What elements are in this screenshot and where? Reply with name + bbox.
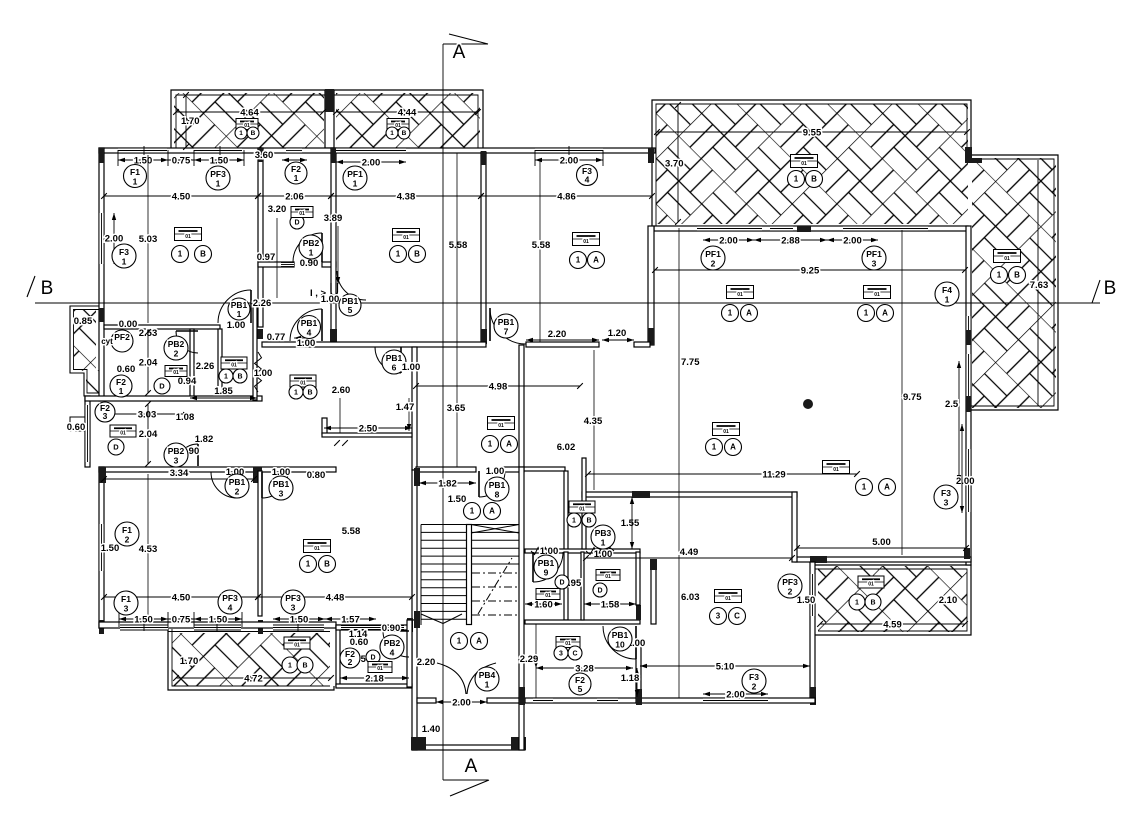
svg-text:1: 1 [239,130,243,137]
svg-text:PB2: PB2 [384,638,401,648]
svg-text:1.18: 1.18 [621,673,640,684]
balcony bottom-right outline [815,565,971,635]
svg-text:1.70: 1.70 [180,656,199,667]
salon bottom-right wall [795,557,971,562]
svg-text:4.44: 4.44 [398,108,417,119]
tag salon big [713,423,740,436]
salon top windows [697,226,762,231]
salon right wall windows [966,316,971,344]
tag kitchen [715,590,742,603]
svg-text:B: B [324,560,330,569]
dim 9.25 [655,269,965,271]
stairs dash-dot hidden treads [472,572,517,574]
svg-text:3: 3 [944,498,949,508]
svg-text:5.03: 5.03 [139,234,158,245]
tag xnod [823,461,850,474]
svg-text:2.06: 2.06 [285,192,304,203]
svg-text:01: 01 [579,506,585,512]
svg-text:F1: F1 [122,525,132,535]
svg-text:01: 01 [185,234,191,240]
tag small room1 [110,425,136,437]
svg-text:3: 3 [291,603,296,613]
svg-text:PB1: PB1 [538,558,555,568]
balcony top-right inner line [1037,160,1039,406]
balcony bottom-left outline [168,629,334,690]
svg-text:C: C [572,650,577,657]
svg-text:4: 4 [228,603,233,613]
door PB4-1 double leaf left [437,663,466,694]
door PB1-10 [603,626,636,659]
dim 2.50 [324,427,412,429]
circle F2-2 [340,648,360,668]
svg-text:5: 5 [348,305,353,315]
svg-text:D: D [113,443,119,452]
svg-text:1: 1 [390,130,394,137]
svg-text:0.90: 0.90 [300,258,319,269]
svg-text:2.50: 2.50 [359,424,378,435]
svg-text:3: 3 [279,489,284,499]
dim 2.5 right [958,361,960,482]
svg-text:4.48: 4.48 [326,593,345,604]
tag recroom [304,540,331,553]
tag balcony bl [284,637,310,649]
door PB2-1 [293,233,322,262]
svg-text:2: 2 [174,349,179,359]
svg-text:5.58: 5.58 [449,240,468,251]
tag corridor small [291,207,313,218]
svg-text:1: 1 [237,309,242,319]
tag sitting [573,233,600,246]
svg-text:B: B [811,175,817,184]
svg-text:01: 01 [231,362,237,368]
svg-text:2.60: 2.60 [332,385,351,396]
balcony bottom-right hatch [818,566,967,632]
wall x=332 middle [331,148,336,344]
wall between bedroom1 and corridor x=258 [258,148,263,327]
svg-text:B: B [237,373,242,380]
svg-text:F3: F3 [941,488,951,498]
circle F2-1 [110,375,132,397]
svg-text:F1: F1 [121,594,131,604]
svg-text:A: A [593,256,599,265]
door PB2-4 [383,631,409,657]
svg-text:1: 1 [997,271,1002,280]
kitchen west wall lower [636,640,641,703]
circle D-1 [154,378,170,394]
svg-text:PB1: PB1 [489,480,506,490]
balcony top-right outline [652,100,1058,410]
circle PF3-3 [281,590,305,614]
stairs side blocks [414,468,420,486]
svg-text:B: B [200,250,206,259]
svg-text:2.29: 2.29 [520,654,539,665]
svg-text:A: A [465,756,478,777]
svg-text:2: 2 [235,487,240,497]
door PB1-4 [290,309,322,341]
tag balcony br [858,576,884,588]
door PB1-1 [218,290,251,323]
salon top wall with windows [654,226,968,231]
tag hall 3C [556,637,580,648]
dim 7.75 [678,228,680,698]
svg-text:2.00: 2.00 [843,236,862,247]
svg-text:1.47: 1.47 [396,402,415,413]
svg-text:F4: F4 [942,285,952,295]
svg-text:A: A [882,309,888,318]
svg-text:1: 1 [216,179,221,189]
svg-text:01: 01 [725,596,731,602]
svg-text:A: A [453,42,466,63]
recroom east wall x=412 [412,470,417,620]
svg-text:01: 01 [868,581,874,587]
svg-text:PB1: PB1 [612,630,629,640]
wc right wall x=636 [636,552,640,605]
dim row top windows [118,159,168,161]
svg-text:9.55: 9.55 [803,128,822,139]
dim 5.10 [640,665,810,667]
1.55 dim [631,497,633,549]
dim 4.98 [416,385,580,387]
tag entrance [488,417,515,430]
circle F2-5 [569,673,591,695]
dims right of stairs [535,624,537,698]
tag stairs 1A [464,503,481,520]
svg-text:1: 1 [728,309,733,318]
dim 1.70 balcony1 [185,95,187,147]
svg-text:5.58: 5.58 [532,240,551,251]
svg-text:1: 1 [178,250,183,259]
kitchen east wall [810,562,815,702]
wall y=467 bedroom2 top [99,467,336,472]
circle F4-1 [935,282,959,306]
svg-text:1: 1 [294,173,299,183]
svg-text:1: 1 [306,560,311,569]
hall south wall y=342 [262,342,486,347]
balcony right strip hatch [972,158,1056,408]
svg-text:2.00: 2.00 [452,698,471,709]
salon southwest step wall [792,492,797,562]
svg-text:1: 1 [224,373,228,380]
svg-text:1: 1 [470,507,475,516]
svg-text:01: 01 [801,161,807,167]
svg-text:A: A [476,637,482,646]
circle F2-top [285,162,307,184]
svg-text:7.75: 7.75 [681,357,700,368]
svg-text:3: 3 [174,456,179,466]
section line A vertical [442,44,444,780]
circle D-2 [108,439,124,455]
door PB2-3 [176,444,198,466]
svg-text:01: 01 [498,423,504,429]
salon2 west wall step [582,458,586,549]
svg-text:01: 01 [299,211,305,217]
svg-text:2.20: 2.20 [417,657,436,668]
svg-text:0.80: 0.80 [307,470,326,481]
door PB1-8 [479,471,505,497]
wall x=481 middle [481,152,486,344]
svg-text:1.20: 1.20 [608,328,627,339]
svg-text:1.50: 1.50 [134,615,153,626]
circle PB2-1 [299,235,323,259]
svg-text:2: 2 [348,657,353,667]
svg-text:2.18: 2.18 [365,674,384,685]
svg-text:1.50: 1.50 [290,615,309,626]
svg-text:01: 01 [294,642,300,648]
svg-text:0.77: 0.77 [267,332,286,343]
kitchen south window 2.00 [703,698,768,703]
svg-text:D: D [159,382,165,391]
door PB4-1 double leaf right [467,663,496,694]
svg-text:9.25: 9.25 [801,266,820,277]
staircase treads full width [421,524,519,526]
dim 4.44 balcony2 [336,111,478,113]
svg-text:01: 01 [583,239,589,245]
dim ext line x=540 [539,159,541,342]
svg-text:3.89: 3.89 [324,213,343,224]
svg-text:PB2: PB2 [168,446,185,456]
svg-text:1: 1 [485,680,490,690]
svg-text:4.64: 4.64 [240,108,259,119]
circle F3-3 [934,485,958,509]
wc wall y=620 [525,620,640,624]
svg-text:1.40: 1.40 [422,724,441,735]
svg-text:2.00: 2.00 [362,158,381,169]
svg-text:5.00: 5.00 [872,537,891,548]
svg-text:5.10: 5.10 [716,662,735,673]
svg-text:2.26: 2.26 [253,298,272,309]
tag salon2 [864,286,891,299]
svg-text:01: 01 [300,380,306,386]
svg-text:1.00: 1.00 [227,320,246,331]
circle PB1-7 [494,314,518,338]
left rooms wall x=190 [190,329,194,400]
svg-text:1: 1 [133,176,138,186]
svg-text:B: B [1104,278,1117,299]
svg-text:PF2: PF2 [114,332,130,342]
svg-text:PB1: PB1 [386,353,403,363]
svg-text:1.50: 1.50 [209,615,228,626]
stairs bottom V mark [421,614,443,624]
svg-text:1.50: 1.50 [448,494,467,505]
svg-text:0.60: 0.60 [117,364,136,375]
svg-text:1.00: 1.00 [254,368,273,379]
left wall window top 2.00 [99,213,104,264]
stairs up-arrow cross top [471,525,519,534]
section B left mark [27,276,35,297]
door PB2-2 [176,331,198,353]
bottom wall left apartment [99,622,336,628]
tag salon1 [727,286,754,299]
svg-text:2.5: 2.5 [945,399,959,410]
svg-text:1: 1 [712,443,717,452]
circle F2-3 [95,402,115,422]
wc inner wall x=581 [581,552,584,620]
svg-text:2.00: 2.00 [105,234,124,245]
dim 2.00 kitchen win [703,693,768,695]
svg-text:1: 1 [576,256,581,265]
tag bedroom1 [175,228,202,241]
left rooms wall y=325 [104,325,220,329]
dim 4.49 [586,557,792,559]
svg-text:A: A [746,309,752,318]
stairs break line diag [478,558,512,614]
svg-text:1.00: 1.00 [486,466,505,477]
svg-text:01: 01 [605,574,611,580]
svg-text:PB1: PB1 [273,479,290,489]
section A bottom mark [443,779,488,781]
circle PF3-2 [778,574,802,598]
left wall window room2 [99,524,104,571]
svg-text:4.98: 4.98 [489,382,508,393]
circle D-5 [366,650,380,664]
svg-text:PB2: PB2 [303,238,320,248]
wall x=258 bedroom2/salon2 [258,471,262,616]
stairs left rail line [420,525,422,626]
svg-text:1.58: 1.58 [601,600,620,611]
tag wc lobby [569,501,595,513]
svg-text:PB1: PB1 [498,317,515,327]
svg-text:1: 1 [945,295,950,305]
top wall window right 2.00 [535,148,603,153]
svg-text:9: 9 [544,568,549,578]
svg-text:D: D [559,579,564,586]
svg-text:1: 1 [119,386,124,396]
circle F1-1 [124,165,147,188]
svg-text:2: 2 [788,587,793,597]
tag court [368,662,392,673]
circle PB2-2 [164,336,188,360]
kitchen east window [810,574,815,616]
svg-text:6.03: 6.03 [681,592,700,603]
top wall window mid 2.00 [336,148,406,153]
terrace border [70,306,99,396]
svg-text:B: B [586,517,591,524]
circle PF2 [111,330,133,352]
svg-text:1.57: 1.57 [341,615,360,626]
recroom south windows [273,625,324,630]
circle F1-3 [114,591,138,615]
svg-text:1.50: 1.50 [797,595,816,606]
svg-text:3.34: 3.34 [170,468,189,479]
svg-text:4.53: 4.53 [139,544,158,555]
corridor wall y=257 [258,262,294,267]
staircase treads left flight [421,571,467,573]
corner column top-right [965,147,972,161]
section line B horizontal [35,302,1100,304]
svg-text:10: 10 [615,640,625,650]
circle PB1-8 [485,477,509,501]
svg-text:4: 4 [585,175,590,185]
salon right wall [966,226,971,565]
svg-text:0.85: 0.85 [74,316,93,327]
stairs dims [419,482,476,484]
svg-text:C: C [734,612,740,621]
left wall upper [99,148,104,401]
svg-text:A: A [884,483,890,492]
circle PF3-4 [218,590,242,614]
svg-text:11.29: 11.29 [762,470,785,481]
circle D corridor [290,215,304,229]
section A top mark [443,43,488,45]
circle F1-2 [115,522,139,546]
svg-text:D: D [294,219,299,226]
svg-text:01: 01 [173,370,179,376]
dim 2.00 top right [535,159,603,161]
svg-text:PF3: PF3 [222,593,238,603]
tag balcony1 [236,119,258,130]
door PB3-1 zigzag [586,548,614,555]
left rooms wall y=396 [85,396,262,401]
balcony top-left outline [171,90,483,148]
svg-text:3.20: 3.20 [268,204,287,215]
svg-text:4.59: 4.59 [883,620,902,631]
svg-text:1: 1 [122,257,127,267]
door PB1-5 [337,271,366,300]
svg-text:PF1: PF1 [705,249,721,259]
circle PB1-6 [382,350,406,374]
svg-text:01: 01 [403,235,409,241]
svg-text:PF3: PF3 [210,169,226,179]
door PB1-6 [375,347,401,373]
svg-text:3.65: 3.65 [447,403,466,414]
svg-text:3.70: 3.70 [665,159,684,170]
svg-text:5.58: 5.58 [342,526,361,537]
svg-text:1.60: 1.60 [534,600,553,611]
svg-text:4.35: 4.35 [584,416,603,427]
svg-text:1: 1 [396,250,401,259]
svg-text:9.75: 9.75 [903,392,922,403]
svg-text:2: 2 [752,682,757,692]
svg-text:0.90: 0.90 [382,623,401,634]
svg-text:2.00: 2.00 [956,476,975,487]
svg-text:6: 6 [392,363,397,373]
balcony bottom-left hatch [172,633,330,686]
svg-text:0.60: 0.60 [67,422,86,433]
svg-text:01: 01 [833,467,839,473]
tag loft2 [290,375,316,387]
svg-text:1: 1 [488,440,493,449]
dim 9.55 balcony3 [657,131,967,133]
svg-text:F3: F3 [749,672,759,682]
dim 2.00 left wall v [113,213,115,264]
west bump wall [85,396,90,467]
section B right mark [1092,280,1100,303]
circle F3-2 [742,669,766,693]
svg-text:1: 1 [457,637,462,646]
svg-text:2.10: 2.10 [939,595,958,606]
svg-text:PF3: PF3 [285,593,301,603]
svg-text:01: 01 [1004,256,1010,262]
svg-text:cyt: cyt [101,337,113,346]
svg-text:0.97: 0.97 [257,252,276,263]
tag balcony2 [387,119,409,130]
svg-text:A: A [730,443,736,452]
svg-text:0.75: 0.75 [172,615,191,626]
svg-text:0.75: 0.75 [172,156,191,167]
svg-text:1.50: 1.50 [101,543,120,554]
svg-text:1.00: 1.00 [402,362,421,373]
dim 1.20 [602,339,634,341]
porch walls [412,620,417,750]
svg-text:3: 3 [559,650,563,657]
circle F3-1 [112,244,136,268]
svg-text:3: 3 [872,259,877,269]
svg-text:2.04: 2.04 [139,358,158,369]
svg-text:2.00: 2.00 [719,236,738,247]
circle D-3 [555,575,569,589]
svg-text:1.00: 1.00 [321,294,340,305]
balcony top-right large hatch [656,104,968,224]
